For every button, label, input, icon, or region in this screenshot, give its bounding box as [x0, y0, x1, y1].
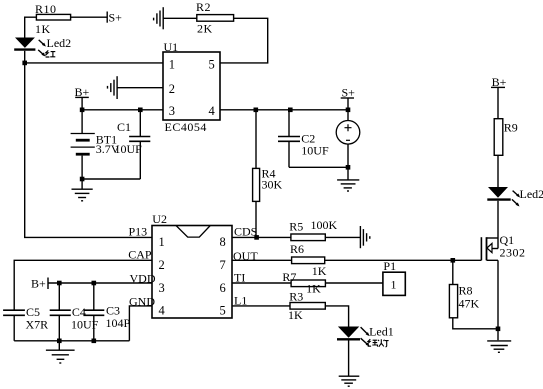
svg-text:4: 4 — [159, 304, 166, 318]
wire U2 pin4 GND net — [129, 306, 152, 341]
node junction R4 top — [254, 108, 259, 113]
node junction S+ — [346, 108, 351, 113]
node junction B+/pin3 — [80, 108, 85, 113]
resistor R9 — [494, 119, 518, 156]
svg-text:P1: P1 — [383, 259, 396, 273]
wire ground to U1 pin2 — [117, 87, 163, 89]
wire to ground — [347, 167, 349, 179]
node junction battery bottom — [80, 177, 85, 182]
node junction LED/pin1 — [22, 61, 27, 66]
svg-text:1K: 1K — [306, 282, 321, 296]
node junction C1 top — [138, 108, 143, 113]
svg-text:R3: R3 — [289, 289, 303, 303]
svg-text:6: 6 — [220, 281, 226, 295]
wire U2 pin8 CDS net — [232, 236, 291, 238]
battery BT1 — [71, 133, 120, 156]
wire R3 to LED1 — [325, 306, 348, 327]
LED Led1 — [337, 327, 360, 340]
svg-text:R2: R2 — [196, 0, 211, 14]
label Led2 with arrows — [39, 36, 71, 50]
svg-text:U2: U2 — [152, 212, 167, 226]
wire U2 pin6 TI net — [232, 282, 291, 284]
svg-text:Led1: Led1 — [369, 324, 394, 338]
svg-text:Led2: Led2 — [520, 187, 543, 201]
resistor R4 — [253, 110, 283, 238]
capacitor C1 — [115, 110, 151, 179]
svg-text:EC4054: EC4054 — [165, 120, 207, 134]
source V1 circle — [336, 110, 360, 168]
svg-text:X7R: X7R — [26, 318, 49, 332]
svg-text:R5: R5 — [289, 220, 303, 234]
wire LED to Q1 drain — [497, 201, 499, 238]
LED Led2 (right) — [487, 187, 510, 200]
svg-text:R7: R7 — [282, 270, 296, 284]
node junction C4 bottom — [57, 339, 62, 344]
svg-text:5: 5 — [209, 58, 215, 72]
wire R9 to LED — [497, 155, 499, 187]
resistor R3 — [288, 289, 325, 322]
wire junction to U1 pin1 — [25, 62, 163, 64]
svg-text:C1: C1 — [117, 120, 131, 134]
wire ground to R2 — [163, 17, 197, 19]
wire B+ down to battery — [81, 110, 83, 133]
wire LED down to junction — [24, 51, 26, 63]
svg-text:2: 2 — [169, 82, 175, 96]
svg-text:R10: R10 — [35, 2, 57, 16]
wire U2 pin7 OUT net — [232, 259, 292, 261]
terminal B+ (right) — [491, 75, 507, 119]
svg-text:B+: B+ — [31, 276, 46, 290]
capacitor C2 — [278, 110, 329, 168]
wire R7 to P1 — [325, 282, 383, 284]
LED Led2 (left) — [14, 38, 35, 50]
svg-text:1K: 1K — [35, 22, 51, 36]
resistor R10 — [35, 2, 71, 36]
terminal S+ (top) — [341, 86, 355, 110]
svg-text:7: 7 — [220, 258, 226, 272]
wire bottom rail — [14, 340, 129, 342]
wire Q1 source down — [497, 260, 499, 340]
wire U2 pin3 VDD net — [48, 282, 152, 284]
wire R10 right to S+ — [71, 16, 108, 18]
wire R2 to U1 pin5 — [220, 18, 268, 63]
wire R8 bottom to source junction — [453, 318, 498, 329]
ground (bottom left) — [46, 350, 75, 363]
ground (top, at R2) — [154, 7, 164, 29]
node junction C2 top — [288, 108, 293, 113]
svg-text:47K: 47K — [459, 297, 480, 311]
resistor R6 — [290, 242, 327, 278]
wire rail to ground — [58, 341, 60, 350]
terminal B+ (battery) — [75, 85, 90, 110]
wire left vertical down to U2 pin1 — [25, 63, 152, 238]
svg-text:10UF: 10UF — [115, 142, 143, 156]
resistor R7 — [282, 270, 325, 296]
ground (R5, right-pointing) — [360, 226, 369, 248]
wire battery bottom to C1 bottom — [82, 178, 140, 180]
wire C2 bottom to source bottom — [289, 166, 348, 168]
wire U2 pin2 CAP net — [14, 260, 152, 310]
node junction source/R8 — [496, 327, 501, 332]
wire battery to ground — [81, 156, 83, 189]
capacitor C4 — [50, 283, 99, 341]
svg-text:3: 3 — [159, 281, 165, 295]
ground (source) — [337, 180, 359, 191]
transistor Q1 (NMOS 2302) — [481, 233, 525, 260]
resistor R5 — [289, 218, 337, 241]
svg-text:30K: 30K — [262, 178, 283, 192]
capacitor C5 — [3, 305, 48, 341]
svg-text:R6: R6 — [290, 242, 304, 256]
terminal B+ (bottom left) — [31, 276, 48, 290]
svg-text:CAP: CAP — [128, 248, 152, 262]
resistor R2 — [196, 0, 234, 36]
terminal S+ (left) — [107, 11, 122, 25]
op-amp U1 box — [163, 40, 220, 120]
svg-text:104P: 104P — [106, 316, 131, 330]
wire LED1 to ground — [348, 341, 350, 376]
wire U1 pin3 net — [82, 109, 163, 111]
svg-text:4: 4 — [209, 104, 216, 118]
svg-text:5: 5 — [220, 304, 226, 318]
wire R10 left to corner — [25, 17, 37, 37]
capacitor C3 — [83, 283, 130, 341]
label Led2 right with arrows — [512, 187, 543, 207]
node junction C3 bottom — [92, 339, 97, 344]
svg-text:1K: 1K — [312, 264, 327, 278]
label green lamp (CJK) with arrow — [361, 338, 389, 347]
svg-text:3: 3 — [169, 104, 175, 118]
svg-text:R9: R9 — [504, 121, 518, 135]
svg-text:1: 1 — [391, 278, 397, 292]
node junction source bottom — [346, 165, 351, 170]
svg-text:1: 1 — [159, 235, 165, 249]
wire U1 pin4 net — [220, 109, 348, 111]
svg-text:P13: P13 — [129, 225, 148, 239]
node junction C3 top — [92, 281, 97, 286]
node junction R8 top — [451, 258, 456, 263]
svg-text:U1: U1 — [164, 40, 179, 54]
svg-text:S+: S+ — [109, 11, 123, 25]
svg-text:1: 1 — [169, 58, 175, 72]
svg-text:2302: 2302 — [500, 246, 526, 260]
svg-text:Led2: Led2 — [47, 36, 72, 50]
svg-text:CDS: CDS — [234, 225, 257, 239]
svg-text:10UF: 10UF — [301, 144, 329, 158]
svg-text:R8: R8 — [459, 284, 473, 298]
connector P1 — [383, 259, 405, 296]
svg-text:TI: TI — [234, 270, 245, 284]
label red lamp (CJK) with arrow — [38, 50, 55, 57]
IC U2 box — [152, 212, 232, 318]
ground (Q1) — [487, 341, 511, 352]
svg-text:100K: 100K — [311, 218, 338, 232]
svg-text:2: 2 — [159, 258, 165, 272]
svg-text:1K: 1K — [288, 308, 303, 322]
ground (Led1) — [339, 376, 360, 386]
node junction R4/CDS — [254, 235, 259, 240]
svg-text:8: 8 — [220, 235, 226, 249]
ground (battery) — [72, 189, 93, 201]
wire U2 pin5 L1 net — [232, 305, 290, 307]
wire R6 to Q1 gate — [325, 259, 482, 261]
node junction C4 top — [57, 281, 62, 286]
svg-text:2K: 2K — [197, 22, 213, 36]
svg-text:10UF: 10UF — [71, 318, 99, 332]
wire R5 to ground — [325, 236, 360, 238]
ground (U1 pin2) — [108, 76, 118, 99]
resistor R8 — [449, 260, 479, 318]
label Led1 with arrows — [361, 324, 394, 338]
